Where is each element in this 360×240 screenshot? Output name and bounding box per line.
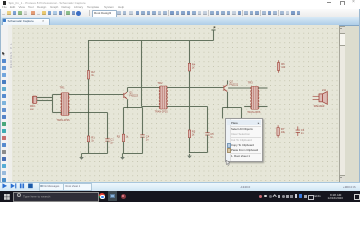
wire: TR2 secondary bottom xyxy=(167,106,207,108)
wire: drop behind menu right xyxy=(241,108,243,119)
context menu xyxy=(225,118,263,162)
junction at 189.5,152.5 xyxy=(189,152,190,153)
wire: power rail drop to R4 xyxy=(189,40,191,63)
taskbar app icons xyxy=(99,193,105,199)
resistor R5 xyxy=(188,130,190,138)
wire: TR3 primary top lead xyxy=(228,87,251,89)
wire: collector to TR2 primary top xyxy=(128,87,163,89)
junction at 127.5,107.5 xyxy=(127,107,128,108)
right panel xyxy=(345,26,360,182)
wire: emitter rail right xyxy=(223,107,242,109)
ground xyxy=(81,155,83,157)
ground xyxy=(189,154,191,156)
wire: TR3 secondary bottom stub xyxy=(258,106,267,108)
menu bar xyxy=(0,5,360,9)
svg-text:LS1: LS1 xyxy=(322,89,327,92)
capacitor C5 xyxy=(205,132,209,134)
junction at 88.5,112.5 xyxy=(88,112,89,113)
wire: down to C5 xyxy=(207,107,209,134)
svg-text:1n: 1n xyxy=(110,141,113,144)
microphone MIC1 xyxy=(32,96,36,103)
svg-text:10k: 10k xyxy=(281,66,286,69)
canvas xyxy=(12,25,339,182)
wire: R4 to Q2 base node and R5 xyxy=(189,71,191,130)
resistor R3 xyxy=(122,134,124,141)
svg-text:PN2222: PN2222 xyxy=(229,84,238,87)
capacitor C6 pin stubs xyxy=(297,126,299,130)
wire: top power rail xyxy=(89,40,214,42)
transformer TR2 xyxy=(160,86,166,109)
wire: TR2 secondary top to Q2 base xyxy=(167,87,223,89)
toolbar icons xyxy=(0,9,360,17)
wire: TR3 primary bottom lead xyxy=(244,106,251,108)
svg-text:TR3: TR3 xyxy=(248,81,254,85)
capacitor C4 xyxy=(140,134,144,136)
tab bar xyxy=(0,17,360,26)
wire: emitter rail xyxy=(124,107,143,109)
wire: mic to bracket xyxy=(37,97,53,99)
svg-text:TR2: TR2 xyxy=(157,81,163,85)
collapsed panel strip xyxy=(8,25,13,182)
wire: TR1 secondary bottom xyxy=(68,112,107,114)
wire: Q2 collector stub up xyxy=(227,80,229,84)
animation controls xyxy=(2,183,35,189)
wire: Q1 emitter down xyxy=(127,99,129,107)
wire: Q1 collector up xyxy=(127,88,129,93)
svg-text:TR1: TR1 xyxy=(60,86,66,90)
svg-text:1k: 1k xyxy=(126,136,129,139)
svg-text:PN2222: PN2222 xyxy=(129,95,138,98)
wire: bracket vertical xyxy=(52,95,54,113)
mouse cursor xyxy=(226,160,231,166)
vertical scrollbar xyxy=(339,26,347,182)
svg-text:TRAN-2P2S: TRAN-2P2S xyxy=(57,119,71,122)
window buttons xyxy=(327,1,331,4)
resistor R6 pin stubs xyxy=(278,60,280,62)
svg-text:1k: 1k xyxy=(192,67,195,70)
resistor R2 xyxy=(87,71,89,79)
wire: emitter to R3 xyxy=(123,108,125,135)
wire: R1 bottom to ground rail xyxy=(88,142,90,154)
junction at 141.5,87.5 xyxy=(141,87,142,88)
wire: down to C1 xyxy=(107,113,109,140)
junction at 88.5,94.5 xyxy=(88,94,89,95)
svg-text:TRAN-2P2S: TRAN-2P2S xyxy=(155,111,169,114)
wire: ground rail right xyxy=(190,152,208,154)
svg-text:1k: 1k xyxy=(91,74,94,77)
tray xyxy=(259,195,262,198)
transistor Q1 xyxy=(123,93,125,98)
junction at 227.5,107.5 xyxy=(227,107,228,108)
transformer TR3 xyxy=(252,86,258,109)
svg-text:SPEAKER: SPEAKER xyxy=(314,105,325,108)
capacitor C1 xyxy=(105,138,109,140)
taskbar xyxy=(0,191,360,203)
svg-text:1n: 1n xyxy=(210,136,213,139)
junction at 189.5,87.5 xyxy=(189,87,190,88)
wire: drop behind menu left xyxy=(222,108,224,119)
svg-text:MIC: MIC xyxy=(30,109,34,111)
wire: emitter to C4 xyxy=(142,108,144,136)
left tool column xyxy=(0,25,9,182)
wire: TR3 secondary top stub xyxy=(258,87,267,89)
speaker LS1 xyxy=(313,95,319,97)
svg-text:1n: 1n xyxy=(301,132,304,135)
transistor Q2 xyxy=(223,86,225,91)
ground xyxy=(122,155,124,157)
capacitor C6 xyxy=(296,129,300,131)
resistor R1 xyxy=(87,136,89,142)
svg-text:1k: 1k xyxy=(192,133,195,136)
wire: TR1 secondary top to Q1 base xyxy=(68,94,123,96)
resistor R4 xyxy=(188,63,190,71)
status bar xyxy=(0,182,360,192)
wire: left rail down to R2 xyxy=(88,40,90,71)
svg-text:1n: 1n xyxy=(146,138,149,141)
wire: bracket to TR1 primary pins xyxy=(53,94,62,96)
resistor R7 xyxy=(277,128,279,136)
wire: ground rail left xyxy=(82,153,108,155)
svg-text:1k: 1k xyxy=(91,139,94,142)
wire: Q2 emitter down xyxy=(227,92,229,108)
resistor R6 xyxy=(277,63,279,71)
svg-text:TRAN-2P2S: TRAN-2P2S xyxy=(247,111,261,114)
wire: ground rail mid xyxy=(123,153,143,155)
svg-text:R3: R3 xyxy=(117,136,121,139)
resistor R7 pin stubs xyxy=(277,125,279,127)
wire: power rail drop to TR2 primary bottom xyxy=(141,40,143,107)
title bar xyxy=(0,0,360,6)
svg-text:10k: 10k xyxy=(281,131,286,134)
wire: R2 to base node and down to R1 xyxy=(88,79,90,136)
power symbol VCC xyxy=(213,30,215,41)
transformer TR1 xyxy=(62,93,68,116)
